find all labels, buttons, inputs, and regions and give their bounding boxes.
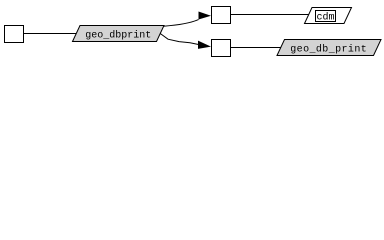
node cdm (parallelogram, white) xyxy=(305,8,352,24)
wire B3 to geo_db_print xyxy=(231,47,281,49)
wire B2 to cdm xyxy=(231,14,309,16)
wire geo_dbprint to top box xyxy=(164,20,199,27)
wire B1 to geo_dbprint xyxy=(24,33,77,35)
node box B2 (top expander square) xyxy=(212,7,231,24)
svg-text:geo_db_print: geo_db_print xyxy=(290,44,367,56)
svg-text:geo_dbprint: geo_dbprint xyxy=(85,30,151,42)
node box B1 (left expander square) xyxy=(5,26,24,43)
arrowhead into bottom box xyxy=(198,41,211,49)
node geo_dbprint (parallelogram) xyxy=(73,26,165,42)
svg-text:cdm: cdm xyxy=(316,12,334,24)
node geo_db_print (parallelogram) xyxy=(277,40,381,56)
inner box around cdm label xyxy=(316,11,336,22)
arrowhead into top box xyxy=(199,12,212,20)
wire geo_dbprint to bottom box xyxy=(160,34,198,45)
node box B3 (bottom expander square) xyxy=(212,40,231,57)
